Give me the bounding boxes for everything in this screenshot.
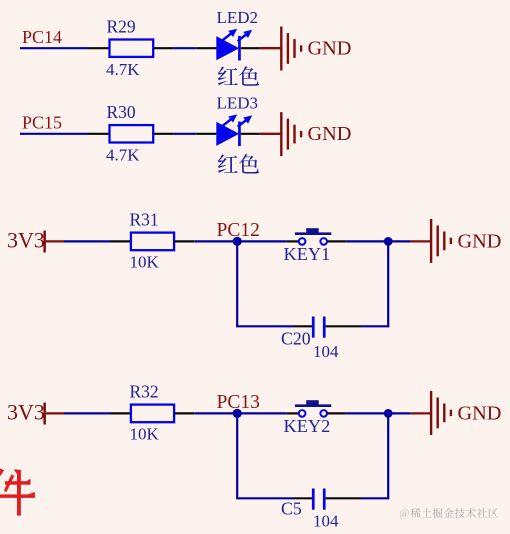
wire 3V3 to R32 [64, 412, 111, 414]
LED LED2 cathode pin [241, 47, 260, 49]
ground GND power port [411, 240, 430, 242]
wire 3V3 to R31 [64, 240, 111, 242]
wire R31 to node PC12 [194, 240, 237, 242]
capacitor C20 pin 2 [326, 325, 361, 327]
svg-text:GND: GND [458, 402, 502, 424]
svg-text:C5: C5 [281, 498, 302, 518]
resistor R30 [110, 125, 154, 142]
switch KEY2 pin 1 [287, 412, 299, 414]
resistor R31 pin 1 [111, 240, 131, 242]
wire bottom left to C5 [236, 497, 293, 499]
junction PC12 [233, 237, 242, 246]
wire C5 to right junction [361, 497, 389, 499]
resistor R30 pin 1 [88, 133, 110, 135]
wire R32 to node PC13 [194, 412, 237, 414]
svg-text:LED3: LED3 [217, 93, 259, 112]
resistor R29 [110, 40, 154, 57]
switch KEY1 [299, 238, 306, 245]
svg-text:3V3: 3V3 [7, 228, 45, 253]
wire node PC13 down to C5 [236, 413, 238, 498]
resistor R29 pin 1 [88, 47, 110, 49]
ground GND power port [411, 412, 430, 414]
capacitor C5 [312, 489, 315, 510]
svg-text:4.7K: 4.7K [106, 145, 140, 164]
svg-text:4.7K: 4.7K [106, 60, 140, 79]
svg-text:104: 104 [313, 512, 339, 531]
svg-text:GND: GND [308, 123, 352, 145]
svg-text:PC15: PC15 [22, 113, 62, 133]
svg-text:R29: R29 [107, 17, 136, 37]
svg-text:10K: 10K [130, 253, 160, 272]
LED LED3 comment red color [218, 154, 238, 173]
wire node PC13 to KEY2 [237, 412, 286, 414]
wire KEY1 to GND [346, 240, 411, 242]
resistor R31 pin 2 [174, 240, 194, 242]
wire R29 to LED2 [174, 47, 197, 49]
LED LED2 [216, 36, 239, 60]
svg-text:R32: R32 [130, 382, 159, 402]
decorative clipped red character [0, 469, 35, 516]
svg-text:KEY2: KEY2 [284, 416, 331, 436]
wire node PC12 down to C20 [236, 241, 238, 326]
watermark juejin community [400, 509, 409, 518]
svg-text:10K: 10K [130, 425, 160, 444]
svg-text:GND: GND [308, 37, 352, 59]
junction PC13 [233, 409, 242, 418]
svg-text:R30: R30 [107, 102, 136, 122]
wire bottom left to C20 [236, 325, 293, 327]
wire R30 to LED3 [174, 133, 197, 135]
resistor R32 pin 1 [111, 412, 131, 414]
resistor R30 pin 2 [153, 133, 173, 135]
ground GND power port [260, 133, 281, 135]
capacitor C5 pin 1 [294, 497, 313, 499]
wire KEY2 to GND [346, 412, 411, 414]
svg-text:C20: C20 [281, 329, 311, 349]
resistor R29 pin 2 [153, 47, 173, 49]
resistor R32 pin 2 [174, 412, 194, 414]
svg-text:LED2: LED2 [217, 8, 259, 27]
LED LED2 anode pin [196, 47, 216, 49]
ground GND power port [260, 47, 281, 49]
svg-text:GND: GND [458, 230, 502, 252]
wire C20 to right junction [361, 325, 389, 327]
switch KEY1 pin 1 [287, 240, 299, 242]
svg-text:R31: R31 [130, 210, 159, 230]
LED LED2 comment red color [218, 67, 238, 86]
switch KEY2 [299, 410, 306, 417]
LED LED3 cathode pin [241, 133, 260, 135]
wire net PC14 to R29 [20, 47, 88, 49]
capacitor C5 pin 2 [326, 497, 361, 499]
svg-text:KEY1: KEY1 [284, 244, 331, 264]
junction right [384, 409, 393, 418]
svg-text:3V3: 3V3 [7, 400, 45, 425]
capacitor C20 [312, 317, 315, 338]
svg-text:104: 104 [313, 342, 339, 361]
junction right [384, 237, 393, 246]
svg-text:PC14: PC14 [22, 27, 62, 47]
resistor R31 [131, 233, 174, 251]
wire net PC15 to R30 [20, 133, 88, 135]
wire right junction down to C20 [387, 241, 389, 326]
switch KEY2 pin 2 [327, 412, 346, 414]
LED LED3 [216, 122, 239, 146]
wire node PC12 to KEY1 [237, 240, 286, 242]
wire right junction down to C5 [387, 413, 389, 498]
capacitor C20 pin 1 [294, 325, 313, 327]
switch KEY1 pin 2 [327, 240, 346, 242]
resistor R32 [131, 405, 174, 423]
LED LED3 anode pin [196, 133, 216, 135]
